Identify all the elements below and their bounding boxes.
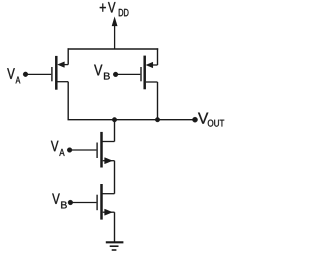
wire VB to gate of M2 (116, 73, 140, 75)
transistor M1 PMOS left (input A) (52, 48, 68, 119)
wire output node down to M3 drain (114, 120, 116, 142)
label VB (PMOS input B) (94, 65, 110, 80)
junction dot output/M2 drain (155, 117, 160, 122)
gate bar M2 (140, 67, 142, 81)
drain lead M3 (103, 141, 115, 143)
channel bar M3 (100, 132, 103, 168)
wire M1 source to VDD rail (67, 48, 69, 64)
label +VDD (100, 2, 129, 16)
node VB lower terminal dot (68, 200, 73, 205)
wire VA to gate of M3 (70, 149, 96, 151)
channel bar M1 (55, 56, 58, 90)
source lead M3 with NMOS arrow (103, 160, 115, 162)
drain lead M4 (103, 193, 115, 195)
node VB terminal dot (113, 72, 118, 77)
wire M1 drain down to output node (67, 82, 69, 120)
channel bar M4 (100, 184, 103, 220)
transistor M2 PMOS right (input B) (141, 48, 158, 119)
node VA terminal dot (23, 72, 28, 77)
gate bar M4 (96, 195, 98, 211)
label VA (PMOS input A) (7, 68, 20, 83)
gate bar M1 (51, 67, 53, 81)
label VB (NMOS input B) (52, 194, 67, 209)
wire M2 source to VDD rail (157, 48, 159, 65)
drain lead M1 (58, 81, 69, 83)
transistor M4 NMOS lower (input B) (97, 184, 114, 242)
wire VDD rail (68, 48, 159, 50)
label VA (NMOS input A) (51, 141, 65, 156)
transistor M3 NMOS upper (input A) (97, 120, 114, 194)
wire M3 source down to M4 drain (114, 161, 116, 194)
gate bar M3 (96, 143, 98, 159)
drain lead M2 (146, 81, 158, 83)
wire M4 source down to ground (114, 212, 116, 242)
node VOUT terminal dot (192, 117, 197, 122)
wire VA to gate of M1 (26, 73, 51, 75)
wire M2 drain down to output node (157, 82, 159, 120)
channel bar M2 (143, 56, 146, 90)
power VDD supply arrow (112, 18, 117, 50)
wire output node row (68, 119, 196, 121)
source lead M2 with PMOS arrow (152, 64, 158, 66)
node VA lower terminal dot (67, 148, 72, 153)
ground symbol (106, 242, 124, 250)
source lead M1 with PMOS arrow (64, 64, 69, 66)
junction dot output/NMOS drain (112, 117, 117, 122)
wire VB to gate of M4 (71, 202, 97, 204)
source lead M4 with NMOS arrow (103, 211, 115, 213)
label VOUT (198, 113, 224, 127)
